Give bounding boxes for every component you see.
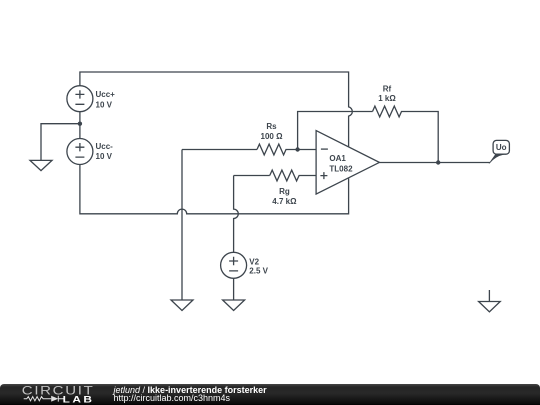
svg-text:1 kΩ: 1 kΩ	[378, 94, 396, 103]
svg-text:Ucc-: Ucc-	[96, 142, 114, 151]
svg-text:V2: V2	[249, 258, 259, 267]
svg-text:Ucc+: Ucc+	[96, 90, 116, 99]
svg-text:10 V: 10 V	[96, 101, 113, 110]
svg-text:10 V: 10 V	[96, 152, 113, 161]
svg-text:Rs: Rs	[266, 122, 277, 131]
svg-text:100 Ω: 100 Ω	[261, 132, 284, 141]
svg-text:Uo: Uo	[496, 143, 507, 152]
svg-text:4.7 kΩ: 4.7 kΩ	[272, 197, 297, 206]
svg-text:Rf: Rf	[383, 85, 392, 94]
svg-text:OA1: OA1	[329, 154, 346, 163]
svg-text:2.5 V: 2.5 V	[249, 267, 268, 276]
svg-text:Rg: Rg	[279, 187, 290, 196]
svg-text:TL082: TL082	[329, 164, 353, 173]
svg-text:LAB: LAB	[63, 395, 95, 405]
